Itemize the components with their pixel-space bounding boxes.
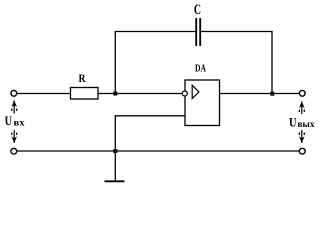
wire: op-amp output xyxy=(220,93,300,95)
svg-text:вх: вх xyxy=(14,118,26,128)
node: bottom rail junction dot xyxy=(113,149,117,153)
wire: non-inverting input vertical down to bottom rail xyxy=(114,115,116,151)
svg-text:U: U xyxy=(289,114,297,129)
svg-text:U: U xyxy=(5,113,13,128)
svg-text:C: C xyxy=(194,2,201,18)
op-amp DA body xyxy=(185,80,220,126)
node: summing junction dot xyxy=(113,92,117,96)
wire: bottom rail xyxy=(17,150,299,152)
wire: ground stub xyxy=(114,151,116,181)
capacitor C left plate xyxy=(195,18,197,46)
arrow up (Uвых) xyxy=(299,101,305,114)
wire: input terminal to resistor R xyxy=(17,93,71,95)
wire: feedback left vertical xyxy=(114,32,116,94)
op-amp triangle symbol xyxy=(192,85,199,98)
op-amp inverting input circle xyxy=(182,91,187,96)
input terminal upper (Uвх +) xyxy=(11,90,17,96)
capacitor C right plate xyxy=(199,18,201,46)
wire: feedback right vertical xyxy=(271,32,273,94)
resistor R body xyxy=(71,88,99,100)
arrow down (Uвх) xyxy=(11,130,17,143)
wire: capacitor C to feedback right vertical xyxy=(201,31,273,33)
ground xyxy=(105,180,125,182)
output terminal lower (Uвых -) xyxy=(299,148,305,154)
arrow down (Uвых) xyxy=(299,130,305,143)
wire: resistor R to op-amp inverting input xyxy=(98,93,182,95)
arrow up (Uвх) xyxy=(11,100,17,113)
output terminal upper (Uвых +) xyxy=(299,90,305,96)
svg-text:DA: DA xyxy=(195,64,206,75)
svg-text:вых: вых xyxy=(298,119,316,129)
input terminal lower (Uвх -) xyxy=(11,148,17,154)
node: output junction dot xyxy=(270,92,274,96)
svg-text:R: R xyxy=(79,71,86,85)
wire: op-amp non-inverting input horizontal xyxy=(115,115,185,117)
wire: feedback top left to capacitor C xyxy=(115,31,196,33)
